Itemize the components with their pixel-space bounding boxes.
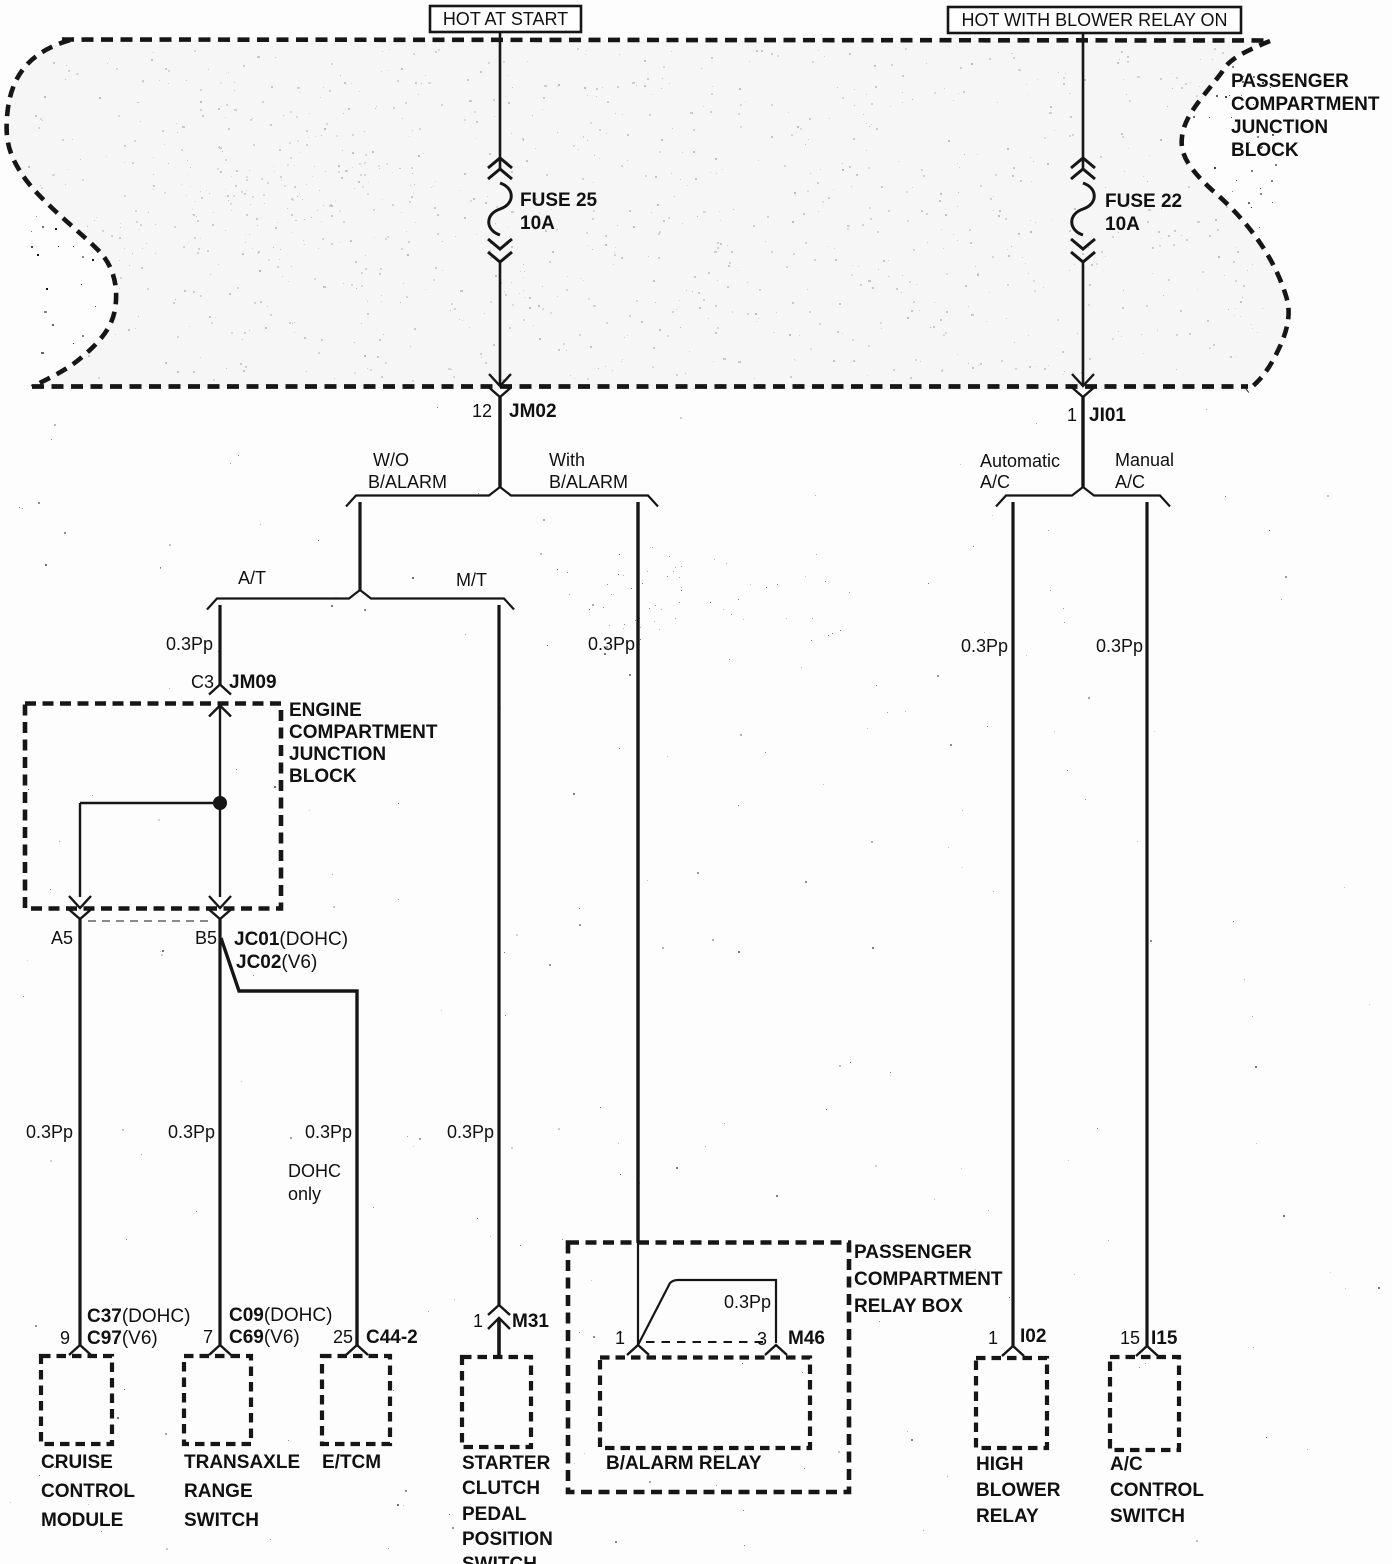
connector JM02 pin 12 (male arrow into female at block boundary): [489, 374, 511, 397]
connector C09/C69 female end: [209, 1345, 231, 1355]
label With B/ALARM: [549, 450, 628, 492]
connector I15 pin 15 female end: [1136, 1346, 1158, 1356]
svg-text:BLOCK: BLOCK: [289, 766, 357, 787]
svg-text:B/ALARM RELAY: B/ALARM RELAY: [606, 1453, 762, 1474]
starter clutch pedal position switch dashed box: [462, 1357, 531, 1447]
label FUSE 25 10A: [520, 190, 598, 234]
svg-text:B/ALARM: B/ALARM: [368, 472, 447, 492]
svg-text:JUNCTION: JUNCTION: [289, 744, 386, 765]
label PASSENGER COMPARTMENT RELAY BOX: [854, 1242, 1003, 1317]
svg-text:only: only: [288, 1184, 321, 1204]
svg-text:10A: 10A: [1105, 214, 1140, 235]
svg-text:TRANSAXLE: TRANSAXLE: [184, 1452, 300, 1473]
wire from B5 stem jogging right to E/TCM branch: [221, 938, 357, 1345]
a/c control switch dashed box: [1110, 1357, 1179, 1450]
label Automatic A/C: [980, 451, 1060, 492]
svg-text:JM09: JM09: [229, 672, 277, 693]
connector M46 pin 3 female end: [765, 1345, 787, 1355]
wire Automatic A/C branch down to high blower relay: [1011, 502, 1014, 1346]
label CRUISE CONTROL MODULE: [41, 1452, 135, 1531]
label 1 JI01: [1067, 405, 1126, 426]
passenger compartment junction block boundary (torn dashed outline): [7, 40, 1289, 392]
svg-text:7: 7: [203, 1327, 213, 1347]
label A/C CONTROL SWITCH: [1110, 1454, 1204, 1527]
svg-text:HOT WITH BLOWER RELAY ON: HOT WITH BLOWER RELAY ON: [961, 10, 1227, 30]
svg-text:JC01(DOHC): JC01(DOHC): [234, 929, 348, 950]
label HOT WITH BLOWER RELAY ON: [948, 7, 1241, 33]
svg-text:1: 1: [988, 1328, 998, 1348]
svg-text:ENGINE: ENGINE: [289, 700, 362, 721]
wire inside relay box down to M46 pin 1: [637, 1243, 639, 1345]
junction node (solder dot): [213, 796, 227, 810]
label Manual A/C: [1115, 450, 1174, 492]
svg-text:RELAY BOX: RELAY BOX: [854, 1296, 963, 1317]
label C37(DOHC) C97(V6) pin 9: [60, 1306, 190, 1349]
label W/O B/ALARM: [368, 450, 447, 492]
svg-text:0.3Pp: 0.3Pp: [305, 1122, 352, 1142]
high blower relay dashed box: [976, 1358, 1047, 1448]
svg-text:3: 3: [757, 1329, 767, 1349]
note DOHC only: [288, 1161, 341, 1204]
connector pin A5 (arrow + female at engine block boundary): [69, 896, 91, 919]
wire from fuse 22 to connector JI01: [1082, 263, 1085, 385]
wire A/T branch 0.3Pp down to connector JM09: [218, 605, 221, 685]
svg-text:CRUISE: CRUISE: [41, 1452, 113, 1473]
svg-text:0.3Pp: 0.3Pp: [26, 1122, 73, 1142]
svg-text:COMPARTMENT: COMPARTMENT: [289, 722, 438, 743]
label ENGINE COMPARTMENT JUNCTION BLOCK: [289, 700, 438, 787]
branch split bar Automatic vs Manual A/C: [996, 487, 1170, 507]
wire W/O B/ALARM branch down to A/T-M/T split: [358, 502, 361, 590]
label C09(DOHC) C69(V6) pin 7: [203, 1305, 332, 1348]
svg-text:B/ALARM: B/ALARM: [549, 472, 628, 492]
wire from HOT WITH BLOWER RELAY ON box down to fuse 22: [1082, 33, 1085, 169]
label 15 I15: [1120, 1328, 1178, 1349]
svg-text:C37(DOHC): C37(DOHC): [87, 1306, 190, 1327]
connector M46 pin 1 female end: [627, 1345, 649, 1355]
label HOT AT START: [430, 6, 581, 32]
fuse F25 symbol: [488, 158, 512, 262]
label 1 I02: [988, 1326, 1046, 1348]
svg-text:COMPARTMENT: COMPARTMENT: [1231, 94, 1380, 115]
connector C37/C97 female end: [69, 1345, 91, 1355]
wire from fuse 25 to connector JM02: [499, 263, 502, 385]
svg-text:BLOCK: BLOCK: [1231, 140, 1299, 161]
svg-text:PEDAL: PEDAL: [462, 1504, 527, 1525]
branch split bar W/O vs With B/ALARM: [346, 487, 658, 507]
svg-text:0.3Pp: 0.3Pp: [166, 634, 213, 654]
label PASSENGER COMPARTMENT JUNCTION BLOCK (top right): [1231, 71, 1380, 161]
svg-text:STARTER: STARTER: [462, 1453, 551, 1474]
fuse F22 symbol: [1071, 158, 1095, 262]
wire Manual A/C branch down to A/C control switch: [1145, 502, 1148, 1346]
svg-text:15: 15: [1120, 1328, 1140, 1348]
wire left leg down to pin A5: [79, 803, 81, 897]
svg-text:RANGE: RANGE: [184, 1481, 253, 1502]
svg-text:Automatic: Automatic: [980, 451, 1060, 471]
svg-text:HIGH: HIGH: [976, 1454, 1024, 1475]
label 12 JM02: [472, 401, 557, 422]
svg-text:CONTROL: CONTROL: [41, 1481, 135, 1502]
svg-text:12: 12: [472, 401, 492, 421]
wire branch from node to left leg: [80, 802, 220, 804]
svg-text:MODULE: MODULE: [41, 1510, 123, 1531]
svg-text:SWITCH: SWITCH: [184, 1510, 259, 1531]
E/TCM dashed box: [322, 1356, 390, 1444]
svg-text:A5: A5: [51, 928, 73, 948]
svg-text:0.3Pp: 0.3Pp: [588, 634, 635, 654]
svg-text:W/O: W/O: [373, 450, 409, 470]
svg-text:A/T: A/T: [238, 568, 266, 588]
svg-text:PASSENGER: PASSENGER: [1231, 71, 1349, 92]
svg-text:M46: M46: [788, 1328, 825, 1349]
svg-text:A/C: A/C: [1110, 1454, 1143, 1475]
label TRANSAXLE RANGE SWITCH: [184, 1452, 300, 1531]
svg-text:C09(DOHC): C09(DOHC): [229, 1305, 332, 1326]
svg-text:BLOWER: BLOWER: [976, 1480, 1061, 1501]
svg-text:POSITION: POSITION: [462, 1529, 553, 1550]
wire M/T branch down to starter clutch pedal position switch: [497, 605, 500, 1305]
svg-text:Manual: Manual: [1115, 450, 1174, 470]
svg-text:E/TCM: E/TCM: [322, 1452, 381, 1473]
wire With B/ALARM branch 0.3Pp down to relay box: [636, 502, 639, 1243]
svg-text:1: 1: [615, 1328, 625, 1348]
svg-text:C3: C3: [191, 672, 214, 692]
connector pin B5 (arrow + female at engine block boundary): [209, 896, 231, 919]
wire B5 down to transaxle range switch: [218, 919, 221, 1346]
wire inside engine junction block (JM09 down to node): [219, 705, 221, 897]
svg-text:C44-2: C44-2: [366, 1327, 418, 1348]
wire JM02 to B/ALARM split: [498, 396, 501, 488]
connector C44-2 female end: [346, 1345, 368, 1355]
connector M31 pin 1 (female end + male arrow up from switch): [488, 1305, 510, 1358]
svg-text:0.3Pp: 0.3Pp: [168, 1122, 215, 1142]
svg-text:I02: I02: [1020, 1326, 1046, 1347]
svg-text:C97(V6): C97(V6): [87, 1328, 158, 1349]
svg-text:CLUTCH: CLUTCH: [462, 1478, 540, 1499]
label HIGH BLOWER RELAY: [976, 1454, 1061, 1527]
svg-text:C69(V6): C69(V6): [229, 1327, 300, 1348]
svg-text:FUSE 22: FUSE 22: [1105, 191, 1182, 212]
label FUSE 22 10A: [1105, 191, 1182, 235]
connector JM09 pin C3 (female above line, male arrow below pointing up): [209, 685, 231, 717]
svg-text:JI01: JI01: [1089, 405, 1126, 426]
wire A5 down to cruise control module: [78, 919, 81, 1346]
svg-text:SWITCH: SWITCH: [1110, 1506, 1185, 1527]
svg-text:1: 1: [473, 1311, 483, 1331]
label 25 C44-2: [333, 1327, 418, 1348]
label C3 JM09: [191, 672, 277, 693]
wire JI01 to A/C split: [1081, 396, 1084, 488]
svg-text:CONTROL: CONTROL: [1110, 1480, 1204, 1501]
svg-text:COMPARTMENT: COMPARTMENT: [854, 1269, 1003, 1290]
branch split bar A/T vs M/T: [207, 590, 514, 610]
dashed tie line between M46 pins 1 and 3: [646, 1341, 766, 1343]
svg-text:9: 9: [60, 1328, 70, 1348]
svg-text:M31: M31: [512, 1311, 549, 1332]
svg-text:With: With: [549, 450, 585, 470]
svg-text:B5: B5: [195, 928, 217, 948]
svg-text:A/C: A/C: [980, 472, 1010, 492]
svg-text:25: 25: [333, 1327, 353, 1347]
svg-text:I15: I15: [1151, 1328, 1178, 1349]
svg-text:0.3Pp: 0.3Pp: [447, 1122, 494, 1142]
svg-text:HOT AT START: HOT AT START: [443, 9, 568, 29]
wire loop from M46 pin 1 up over to pin 3: [638, 1280, 776, 1345]
svg-text:DOHC: DOHC: [288, 1161, 341, 1181]
svg-text:JC02(V6): JC02(V6): [236, 952, 317, 973]
cruise control module dashed box: [41, 1356, 112, 1444]
connector I02 pin 1 female end: [1002, 1346, 1024, 1356]
svg-text:0.3Pp: 0.3Pp: [1096, 636, 1143, 656]
svg-text:0.3Pp: 0.3Pp: [961, 636, 1008, 656]
label JC01(DOHC) JC02(V6): [234, 929, 348, 973]
engine compartment junction block dashed box: [25, 704, 281, 909]
svg-text:JM02: JM02: [509, 401, 557, 422]
svg-text:A/C: A/C: [1115, 472, 1145, 492]
svg-text:FUSE 25: FUSE 25: [520, 190, 598, 211]
label 1 M31: [473, 1311, 549, 1332]
svg-text:10A: 10A: [520, 213, 555, 234]
connector JI01 pin 1 (male arrow into female at block boundary): [1072, 374, 1094, 397]
svg-text:RELAY: RELAY: [976, 1506, 1039, 1527]
svg-text:0.3Pp: 0.3Pp: [724, 1292, 771, 1312]
faint dashed tie line between A5 and B5 connectors: [88, 920, 214, 922]
svg-text:JUNCTION: JUNCTION: [1231, 117, 1328, 138]
transaxle range switch dashed box: [184, 1356, 251, 1444]
passenger compartment relay box dashed outline: [568, 1243, 849, 1493]
svg-text:SWITCH: SWITCH: [462, 1554, 537, 1564]
label STARTER CLUTCH PEDAL POSITION SWITCH: [462, 1453, 553, 1564]
wire from HOT AT START box down to fuse 25: [499, 32, 502, 169]
svg-text:PASSENGER: PASSENGER: [854, 1242, 972, 1263]
svg-text:M/T: M/T: [456, 570, 487, 590]
svg-text:1: 1: [1067, 405, 1077, 425]
b/alarm relay dashed box: [600, 1358, 810, 1449]
